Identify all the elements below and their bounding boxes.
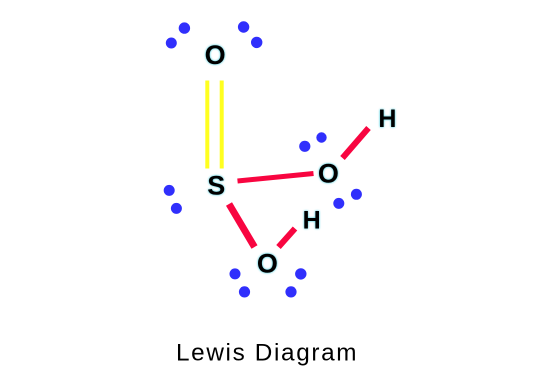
svg-text:Lewis Diagram: Lewis Diagram xyxy=(176,340,358,367)
svg-text:O: O xyxy=(205,40,226,70)
svg-text:S: S xyxy=(207,171,225,201)
single bond bottom O to middle H (red) xyxy=(279,229,296,248)
lone pair on bottom O, left side xyxy=(230,268,251,297)
single bond S to bottom O (red) xyxy=(229,204,255,247)
lone pair on top O, right side xyxy=(238,21,263,48)
lone pair on bottom O, right side xyxy=(285,268,306,297)
lone pair on S, left side xyxy=(164,185,182,214)
lone pair on right O, upper side xyxy=(299,132,327,152)
svg-text:O: O xyxy=(257,249,278,279)
single bond right O to H (red) xyxy=(343,128,369,158)
lone pair on right O, lower side xyxy=(333,189,362,209)
svg-text:H: H xyxy=(378,105,396,133)
svg-text:O: O xyxy=(318,159,339,189)
svg-text:H: H xyxy=(303,207,321,235)
double bond S=O (yellow) xyxy=(207,81,221,169)
lone pair on top O, left side xyxy=(166,22,190,48)
single bond S to right O (red) xyxy=(238,174,314,182)
